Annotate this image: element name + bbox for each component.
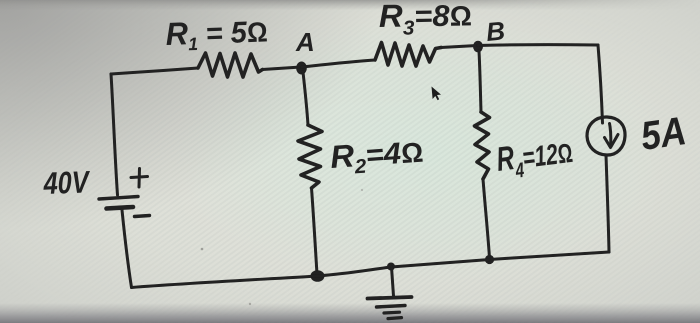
ground bar 4 <box>388 318 402 319</box>
wire R4 down to junction <box>483 179 490 258</box>
wire R2 down to bottom junction <box>312 188 318 274</box>
junction dot bottom R2 <box>311 270 325 282</box>
paper speck <box>201 248 204 251</box>
ground junction dot <box>387 263 395 271</box>
wire node A down to R2 <box>303 72 308 125</box>
wire bottom-right corner to R4 junction <box>490 252 610 260</box>
resistor R1 <box>198 53 263 77</box>
wire bottom (ground junction to R4 junction) <box>391 260 490 268</box>
wire node A to R3 <box>302 60 376 67</box>
ground stem <box>392 267 394 296</box>
battery minus sign <box>135 216 150 217</box>
resistor R2 <box>298 125 322 188</box>
node A junction dot <box>296 62 307 75</box>
ground bar 1 <box>368 297 412 299</box>
wire battery - down to bottom-left corner <box>122 210 132 288</box>
wire right vertical down to current source <box>598 45 603 123</box>
ground bar 3 <box>384 311 400 315</box>
wire top-left horizontal (corner to R1) <box>111 68 198 74</box>
current source I1 circle <box>587 117 625 155</box>
mouse cursor <box>432 87 442 101</box>
wire node B to top-right corner <box>478 43 598 47</box>
svg-text:40V: 40V <box>42 164 91 201</box>
svg-text:5A: 5A <box>638 109 689 159</box>
paper speck <box>361 189 363 191</box>
battery B1 top plate <box>99 197 138 200</box>
node B junction dot <box>473 41 483 53</box>
svg-text:A: A <box>295 27 315 57</box>
wire bottom (corner to ground junction) <box>132 267 392 288</box>
battery B1 bottom plate <box>107 207 134 209</box>
junction dot bottom R4 <box>485 255 494 264</box>
paper speck <box>249 303 251 305</box>
resistor R4 <box>475 112 490 179</box>
wire left vertical (top-left corner down to battery +) <box>111 74 118 195</box>
current source arrow <box>610 124 611 148</box>
wire R3 to node B <box>441 46 477 48</box>
resistor R3 <box>375 43 441 67</box>
battery plus sign <box>131 169 148 188</box>
wire current source bottom down <box>606 155 609 252</box>
wire node B down to R4 <box>479 51 481 112</box>
svg-text:B: B <box>485 15 506 47</box>
wire R1 to node A <box>263 67 302 70</box>
ground bar 2 <box>377 306 406 308</box>
